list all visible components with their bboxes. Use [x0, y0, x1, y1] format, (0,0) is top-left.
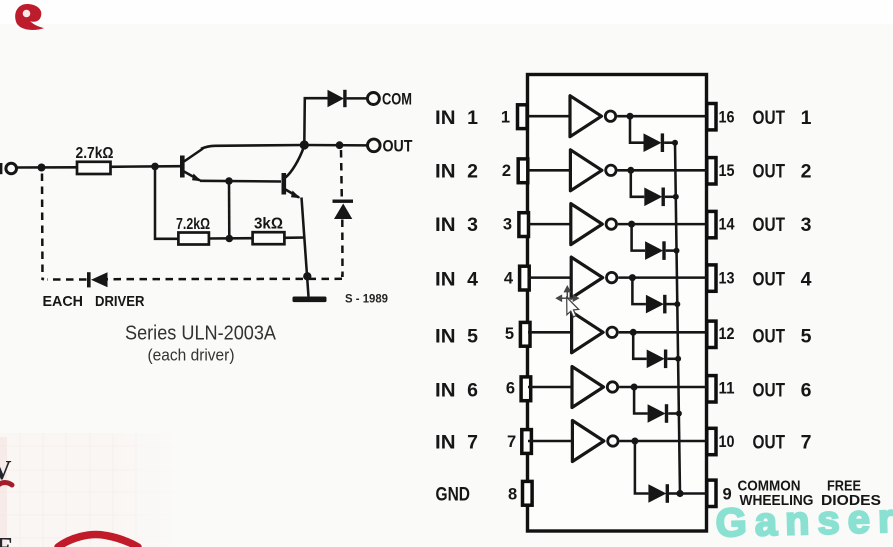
wire input pin 1 to inverter: [528, 115, 572, 118]
node output channel 6: [631, 384, 638, 391]
svg-text:13: 13: [719, 270, 735, 288]
wire inverter output to OUT pin 14: [618, 223, 707, 226]
label IN 2: [435, 161, 478, 183]
wire node down to diode D2: [631, 170, 645, 197]
diode D3 each driver: [87, 272, 108, 287]
ground: [293, 297, 327, 303]
svg-text:OUT: OUT: [383, 138, 413, 156]
watermark Ganser: [715, 497, 893, 546]
svg-text:IN: IN: [435, 107, 456, 129]
diode D2 (dashed branch): [333, 200, 354, 220]
label OUT 4: [753, 268, 812, 290]
svg-text:DRIVER: DRIVER: [95, 293, 145, 310]
svg-text:IN: IN: [435, 380, 456, 402]
wire diode D4 cathode to common bus: [667, 303, 678, 306]
label IN 1: [435, 107, 478, 129]
resistor R2 7.2k: [176, 216, 210, 245]
wire input pin 4 to inverter: [528, 276, 573, 279]
wire input to resistor R1: [16, 166, 77, 169]
wire diode D1 cathode to common bus: [664, 141, 675, 144]
node resistor junction: [226, 235, 234, 243]
pin 16 box: [707, 104, 716, 130]
inverter channel 7: [572, 421, 618, 462]
pin 6 box: [521, 377, 531, 401]
wire inverter output to OUT pin 11: [619, 386, 707, 389]
node output channel 4: [629, 274, 636, 281]
label EACH DRIVER: [43, 293, 145, 310]
pin 15 box: [707, 158, 716, 184]
svg-text:16: 16: [719, 109, 735, 127]
label IN 6: [435, 380, 478, 402]
svg-text:COM: COM: [382, 91, 412, 109]
wire bus to pin 9: [680, 492, 707, 495]
pin 4 box: [520, 266, 530, 290]
label OUT 3: [753, 214, 812, 236]
wire input pin 5 to inverter: [528, 331, 573, 334]
svg-text:IN: IN: [435, 326, 456, 348]
wire inverter output to OUT pin 10: [620, 440, 708, 443]
label IN 4: [435, 268, 478, 290]
wire base junction down to R2: [155, 166, 178, 238]
junction bus channel 1: [672, 140, 678, 146]
wire Q2 emitter down to ground: [302, 198, 309, 297]
label COMMON FREE WHEELING DIODES: [738, 478, 882, 510]
svg-text:GND: GND: [436, 484, 471, 506]
wire input pin 7 to inverter: [528, 440, 574, 443]
svg-text:6: 6: [506, 380, 515, 398]
svg-text:7: 7: [467, 432, 478, 454]
svg-text:E: E: [0, 533, 14, 547]
pin 1 number: [501, 109, 510, 127]
svg-text:OUT: OUT: [753, 326, 786, 348]
junction bus channel 3: [674, 248, 680, 254]
label OUT 7: [753, 432, 812, 454]
terminal OUT: [368, 138, 413, 156]
node output channel 5: [630, 329, 637, 336]
wire inverter output to OUT pin 13: [618, 276, 707, 279]
resistor R3 3k: [253, 216, 285, 245]
wire node down to diode D5: [633, 332, 647, 359]
wire rail to OUT terminal: [304, 144, 367, 147]
inverter channel 4: [571, 257, 617, 298]
wire inverter output to OUT pin 12: [619, 331, 707, 334]
pin 13 number: [719, 270, 735, 288]
caption (each driver): [148, 346, 235, 365]
wire Q1 emitter to Q2 base: [200, 180, 281, 183]
wire diode D6 cathode to common bus: [668, 412, 679, 415]
node input junction: [38, 164, 46, 172]
svg-text:3kΩ: 3kΩ: [254, 216, 283, 233]
diode D1 to COM: [328, 90, 347, 107]
label IN 5: [435, 326, 478, 348]
pin 3 box: [519, 213, 529, 237]
svg-text:2: 2: [467, 161, 478, 183]
common cathode bus: [675, 144, 680, 494]
IC body ULN-2003A: [528, 75, 707, 532]
pin 3 number: [503, 216, 512, 234]
pin 14 box: [707, 211, 716, 237]
node output channel 1: [627, 113, 634, 120]
wire node down to diode D6: [634, 387, 648, 414]
svg-text:3: 3: [467, 214, 478, 236]
pin 11 box: [707, 376, 716, 402]
wire inverter output to OUT pin 15: [618, 169, 708, 172]
label IN 7: [435, 432, 478, 454]
pin 2 box: [518, 159, 528, 183]
label OUT 6: [753, 380, 812, 402]
wire node down to diode D1: [630, 116, 644, 143]
svg-text:OUT: OUT: [753, 107, 786, 129]
diode D4 (free wheeling): [646, 295, 667, 314]
transistor Q2: [282, 148, 304, 198]
svg-text:OUT: OUT: [753, 268, 786, 290]
resistor R1 2.7k: [76, 145, 114, 174]
svg-text:IN: IN: [435, 432, 456, 454]
red script stroke bottom: [58, 534, 138, 547]
wire diode D7 cathode to common bus: [669, 492, 680, 495]
mouse cursor with move crosshair: [557, 287, 579, 317]
wire diode D2 cathode to common bus: [665, 196, 676, 199]
pin 4 number: [504, 270, 514, 288]
svg-text:12: 12: [719, 325, 735, 343]
wire collector rail Q1 to node: [201, 145, 304, 149]
pin 9 box: [707, 480, 716, 506]
inverter channel 3: [571, 204, 617, 245]
inverter channel 2: [570, 150, 616, 191]
junction bus to pin 9: [676, 490, 683, 497]
letter V margin note: [0, 455, 12, 485]
svg-text:EACH: EACH: [43, 293, 84, 310]
svg-text:1: 1: [467, 107, 478, 129]
junction bus channel 4: [674, 301, 680, 307]
wire diode D3 cathode to common bus: [666, 249, 677, 252]
pin 15 number: [719, 162, 735, 180]
svg-text:OUT: OUT: [753, 432, 786, 454]
svg-text:5: 5: [505, 325, 514, 343]
svg-text:1: 1: [801, 107, 812, 129]
svg-text:OUT: OUT: [753, 380, 786, 402]
svg-text:7.2kΩ: 7.2kΩ: [176, 216, 210, 233]
input terminal I/O: [0, 163, 17, 174]
pin 14 number: [719, 216, 736, 234]
wire node down to diode D3: [632, 224, 646, 251]
label OUT 2: [753, 161, 812, 183]
diode D1 (free wheeling): [644, 133, 665, 152]
wire node down to diode D4: [632, 278, 646, 305]
svg-text:6: 6: [801, 380, 812, 402]
svg-text:4: 4: [467, 268, 478, 290]
diode D2 (free wheeling): [644, 188, 665, 207]
svg-text:S - 1989: S - 1989: [345, 294, 388, 306]
pin 8 number: [508, 485, 517, 503]
node output channel 2: [627, 167, 634, 174]
pin 9 number: [723, 485, 732, 503]
label OUT 5: [753, 326, 812, 348]
junction bus channel 6: [676, 411, 682, 417]
svg-text:11: 11: [719, 380, 735, 398]
node base junction: [151, 163, 159, 171]
pin 6 number: [506, 380, 515, 398]
label S-1989: [345, 294, 388, 306]
svg-text:OUT: OUT: [753, 214, 786, 236]
svg-text:8: 8: [508, 485, 517, 503]
diode D3 (free wheeling): [645, 241, 666, 260]
node output channel 7: [631, 438, 638, 445]
svg-text:2.7kΩ: 2.7kΩ: [76, 145, 114, 162]
pin 7 box: [522, 430, 532, 454]
svg-text:7: 7: [801, 432, 812, 454]
wire input pin 3 to inverter: [528, 223, 572, 226]
wire node down to diode D7: [635, 441, 649, 494]
svg-text:15: 15: [719, 162, 735, 180]
inverter channel 1: [570, 96, 616, 137]
svg-text:IN: IN: [435, 214, 456, 236]
svg-text:10: 10: [719, 433, 735, 451]
caption Series ULN-2003A: [125, 323, 277, 345]
svg-text:(each driver): (each driver): [148, 346, 235, 365]
pin 12 number: [719, 325, 735, 343]
svg-text:Series ULN-2003A: Series ULN-2003A: [125, 323, 277, 345]
svg-text:OUT: OUT: [753, 161, 786, 183]
svg-text:2: 2: [801, 161, 812, 183]
node emitter crosses dashed row: [303, 272, 311, 280]
wire emitter junction down to R2/R3 junction: [228, 181, 231, 239]
wire R2 to R3: [209, 237, 253, 240]
pin 8 box: [523, 481, 533, 505]
svg-text:7: 7: [507, 433, 516, 451]
pin 7 number: [507, 433, 516, 451]
svg-text:IN: IN: [435, 268, 456, 290]
svg-text:5: 5: [801, 326, 812, 348]
svg-text:4: 4: [504, 270, 514, 288]
wire node up to COM diode: [304, 98, 327, 145]
red swoosh under V: [0, 483, 12, 487]
junction bus channel 5: [675, 356, 681, 362]
wire R1 to Q1 base: [111, 165, 182, 168]
letter E margin note: [0, 533, 14, 547]
svg-text:Ganser: Ganser: [715, 497, 893, 546]
red annotation top-left: [15, 4, 44, 30]
svg-text:14: 14: [719, 216, 736, 234]
dashed wire OUT node down to diode D2: [340, 150, 343, 199]
svg-text:1: 1: [501, 109, 510, 127]
pin 5 box: [520, 322, 530, 346]
node dashed branch: [336, 141, 344, 149]
svg-text:6: 6: [467, 380, 478, 402]
label IN 3: [435, 214, 478, 236]
svg-text:4: 4: [801, 268, 812, 290]
terminal COM: [367, 91, 412, 109]
pin 16 number: [719, 109, 735, 127]
wire diode D5 cathode to common bus: [667, 358, 678, 361]
graph paper block bottom-left: [0, 433, 183, 547]
svg-text:3: 3: [801, 214, 812, 236]
wire diode to COM terminal: [347, 97, 367, 100]
pin 5 number: [505, 325, 514, 343]
wire inverter output to OUT pin 16: [617, 115, 707, 118]
inverter channel 6: [572, 367, 618, 408]
wire R3 to emitter line: [284, 236, 305, 239]
wire input pin 2 to inverter: [528, 169, 572, 172]
diode D5 (free wheeling): [647, 350, 668, 369]
dashed wire input node down to bottom row: [42, 174, 44, 280]
pin 10 number: [719, 433, 735, 451]
label GND: [436, 484, 471, 506]
svg-text:5: 5: [467, 326, 478, 348]
transistor Q1: [180, 149, 203, 182]
svg-text:3: 3: [503, 216, 512, 234]
node emitter junction: [225, 177, 233, 185]
node collector OUT: [300, 140, 309, 149]
node output channel 3: [628, 221, 635, 228]
pin 13 box: [707, 265, 716, 291]
label OUT 1: [753, 107, 812, 129]
diode D7 (free wheeling): [648, 484, 669, 503]
dashed wire diode D2 down to corner: [341, 220, 343, 276]
diode D6 (free wheeling): [648, 404, 669, 423]
inverter channel 5: [572, 312, 618, 353]
pin 2 number: [502, 162, 511, 180]
pin 11 number: [719, 380, 735, 398]
wire input pin 6 to inverter: [528, 386, 574, 389]
dashed wire bottom row: [47, 278, 342, 281]
pin 10 box: [707, 428, 716, 454]
svg-text:IN: IN: [435, 161, 456, 183]
svg-text:2: 2: [502, 162, 511, 180]
pin 1 box: [518, 105, 528, 129]
pin 12 box: [707, 321, 716, 347]
junction bus channel 2: [673, 194, 679, 200]
